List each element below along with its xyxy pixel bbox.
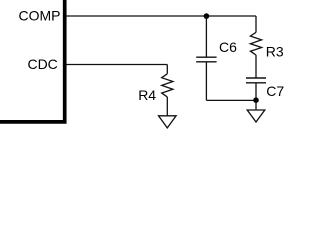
- node junction dot on COMP net: [204, 13, 210, 19]
- svg-text:C7: C7: [266, 83, 284, 99]
- svg-text:C6: C6: [219, 39, 237, 55]
- node junction dot on bottom net: [253, 97, 259, 103]
- resistor R4: [162, 74, 173, 97]
- wire CDC net (horizontal from CDC pin to R4): [67, 64, 168, 66]
- wire C7 bottom lead: [255, 83, 257, 100]
- svg-text:CDC: CDC: [27, 56, 57, 72]
- wire bottom net (horizontal C6 to C7/ground junction): [206, 99, 256, 101]
- capacitor C6: [196, 57, 216, 62]
- ground symbol (below R4): [159, 116, 177, 128]
- capacitor C7: [246, 78, 266, 83]
- wire R3 to C7: [255, 55, 257, 78]
- wire C6 bottom lead down to bottom net: [205, 62, 207, 100]
- resistor R3: [250, 32, 261, 55]
- wire R3 top lead (corner from COMP net down to resistor): [255, 16, 257, 32]
- wire C6 top lead: [205, 16, 207, 57]
- wire junction to ground: [255, 101, 257, 110]
- wire COMP net (horizontal from COMP pin to R3 branch): [67, 15, 257, 17]
- svg-text:COMP: COMP: [19, 7, 61, 23]
- svg-text:R4: R4: [138, 87, 156, 103]
- wire R4 top lead (corner down to resistor): [166, 65, 168, 74]
- svg-text:R3: R3: [266, 44, 284, 60]
- IC block U1 (right-bottom corner of device outline): [0, 0, 65, 122]
- wire R4 bottom lead to ground: [166, 97, 168, 116]
- ground symbol (below C7): [247, 110, 265, 122]
